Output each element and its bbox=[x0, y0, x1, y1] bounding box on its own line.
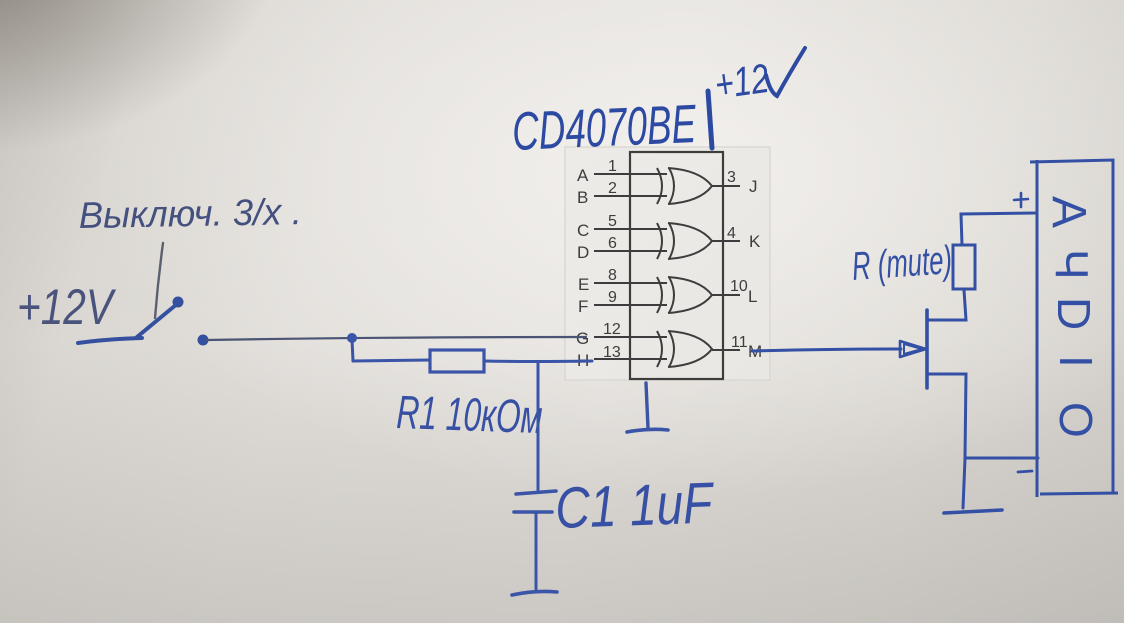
svg-text:D: D bbox=[577, 243, 589, 262]
wire R1 to pin 13 bbox=[484, 360, 592, 364]
switch S1 contact dot bbox=[173, 297, 184, 308]
svg-text:13: 13 bbox=[603, 344, 621, 361]
svg-text:5: 5 bbox=[608, 213, 617, 230]
wire R(mute) top to audio + bbox=[961, 213, 1037, 245]
junction node on main wire bbox=[347, 333, 357, 343]
output pin numbers and labels J K L M bbox=[727, 169, 748, 351]
svg-text:Выключ. 3/х .: Выключ. 3/х . bbox=[78, 191, 302, 236]
svg-text:L: L bbox=[748, 287, 757, 306]
svg-text:Ч: Ч bbox=[1046, 249, 1098, 280]
ground bar under IC bbox=[627, 429, 668, 432]
svg-text:I: I bbox=[1050, 355, 1102, 368]
wire junction drop bbox=[352, 339, 353, 361]
ground bar below C1 bbox=[512, 591, 557, 595]
svg-text:A: A bbox=[1042, 196, 1095, 228]
svg-text:1: 1 bbox=[608, 158, 617, 175]
pin 12 input line G bbox=[594, 336, 667, 338]
switch S1 lever bbox=[137, 304, 177, 337]
pin 13 input line H bbox=[594, 358, 667, 360]
wire to resistor R1 bbox=[353, 360, 430, 361]
svg-text:3: 3 bbox=[727, 169, 736, 186]
IC U1 CD4070BE body outline bbox=[630, 152, 723, 379]
svg-text:+12V: +12V bbox=[17, 279, 117, 335]
switch S1 vertical actuator line bbox=[155, 243, 163, 318]
svg-text:O: O bbox=[1050, 402, 1102, 438]
pin 2 input line B bbox=[594, 195, 667, 197]
AUDIO connector box bbox=[1030, 160, 1118, 497]
drain wire bbox=[927, 290, 966, 320]
svg-text:CD4070BE: CD4070BE bbox=[511, 94, 698, 162]
ground stem under IC bbox=[646, 383, 648, 428]
pin 1 input line A bbox=[594, 173, 667, 175]
svg-text:K: K bbox=[749, 232, 761, 251]
resistor R1 body bbox=[430, 350, 484, 372]
XOR gate U1B bbox=[657, 223, 712, 259]
XOR gate U1C bbox=[657, 277, 712, 313]
transistor Q1 channel bar bbox=[925, 310, 929, 388]
svg-text:D: D bbox=[1048, 297, 1100, 330]
minus sign at audio bottom bbox=[1018, 471, 1032, 472]
svg-text:4: 4 bbox=[727, 225, 736, 242]
wire source to ground bbox=[963, 459, 965, 508]
svg-text:C: C bbox=[577, 221, 589, 240]
svg-text:G: G bbox=[576, 329, 589, 348]
pin 9 input line F bbox=[594, 304, 667, 306]
svg-text:C1 1uF: C1 1uF bbox=[554, 470, 716, 541]
capacitor C1 bottom plate bbox=[514, 510, 552, 514]
capacitor C1 top plate bbox=[516, 491, 556, 494]
printed datasheet sheet background bbox=[565, 147, 770, 380]
pin 3 output line J bbox=[712, 185, 740, 187]
svg-text:R1 10кОм: R1 10кОм bbox=[396, 385, 544, 443]
svg-text:A: A bbox=[577, 166, 589, 185]
switch S1 left terminal wire bbox=[78, 338, 142, 343]
wire main horizontal to pin 12 bbox=[207, 337, 586, 340]
IC supply stroke bbox=[708, 91, 712, 148]
svg-text:6: 6 bbox=[608, 235, 617, 252]
pin 11 output line M bbox=[712, 349, 740, 351]
svg-text:11: 11 bbox=[731, 334, 748, 351]
ground bar below transistor bbox=[944, 510, 1002, 513]
svg-text:F: F bbox=[578, 297, 588, 316]
pin 6 input line D bbox=[594, 250, 667, 252]
pin 4 output line K bbox=[712, 240, 740, 242]
node dot right of switch bbox=[198, 335, 209, 346]
pin 10 output line L bbox=[712, 294, 740, 296]
wire down to capacitor C1 bbox=[537, 363, 540, 490]
svg-text:12: 12 bbox=[603, 321, 621, 338]
svg-text:J: J bbox=[749, 177, 758, 196]
source wire bbox=[927, 374, 1038, 458]
svg-text:10: 10 bbox=[730, 278, 748, 295]
svg-text:+12: +12 bbox=[712, 55, 772, 108]
svg-text:8: 8 bbox=[608, 267, 617, 284]
input pin numbers bbox=[603, 158, 621, 361]
svg-text:R (mute): R (mute) bbox=[851, 238, 954, 289]
resistor R(mute) body bbox=[953, 245, 975, 289]
plus sign at audio top bbox=[1014, 193, 1028, 207]
pin 8 input line E bbox=[594, 282, 667, 284]
XOR gate U1A bbox=[657, 168, 712, 204]
pin labels A-H bbox=[576, 166, 589, 370]
XOR gate U1D bbox=[657, 331, 712, 367]
gate arrow head bbox=[900, 341, 926, 357]
checkmark V of +12V bbox=[766, 48, 805, 96]
wire C1 to ground bbox=[535, 513, 538, 589]
svg-text:E: E bbox=[578, 275, 589, 294]
wire M output to transistor gate bbox=[752, 349, 901, 351]
svg-text:2: 2 bbox=[608, 180, 617, 197]
svg-text:B: B bbox=[577, 188, 588, 207]
svg-text:9: 9 bbox=[608, 289, 617, 306]
pin 5 input line C bbox=[594, 228, 667, 230]
